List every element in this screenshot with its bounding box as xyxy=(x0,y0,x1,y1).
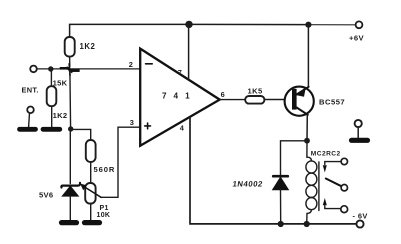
svg-text:741: 741 xyxy=(162,92,197,101)
wire pin 7 xyxy=(188,24,190,79)
wire pin 6 output xyxy=(220,99,246,101)
ground (under pot) xyxy=(85,220,100,225)
svg-text:2: 2 xyxy=(129,60,133,69)
wire 15K bottom to ground xyxy=(51,106,53,127)
wire top +6V rail xyxy=(70,24,309,37)
terminal ENT lower xyxy=(27,107,34,114)
svg-text:BC557: BC557 xyxy=(319,97,345,106)
ground (under ENT lower) xyxy=(20,127,36,132)
wire pin 4 xyxy=(190,117,356,224)
svg-text:5V6: 5V6 xyxy=(39,191,53,200)
terminal ENT upper xyxy=(30,66,37,73)
ground (under 15K) xyxy=(43,127,60,132)
diode D2 1N4002 xyxy=(273,175,288,178)
terminal +6V xyxy=(356,21,363,28)
relay armature arm xyxy=(326,179,342,187)
wire 560R to pot xyxy=(90,162,92,183)
resistor R1 1K2 (top-left) xyxy=(65,37,75,57)
transistor Q1 BC557 xyxy=(285,87,314,116)
wire lower terminal to ground xyxy=(28,113,31,127)
wire input to pin 2 xyxy=(37,68,140,70)
ground (right terminal) xyxy=(352,138,368,143)
resistor 560R xyxy=(86,140,96,162)
node junction pin7/top rail xyxy=(185,21,192,28)
relay core bar xyxy=(318,162,320,211)
svg-text:3: 3 xyxy=(130,118,134,127)
wire pot bottom to ground xyxy=(90,204,92,220)
crossover (no-connect hop) xyxy=(61,64,78,75)
wire branch to 560R xyxy=(71,129,91,140)
svg-text:1K2: 1K2 xyxy=(53,111,68,120)
relay contact bottom with up arrow xyxy=(325,206,341,209)
relay coil MC2RC2 xyxy=(306,141,308,157)
potentiometer P1 10K xyxy=(85,183,95,204)
svg-text:- 6V: - 6V xyxy=(353,212,368,221)
wire R1 bottom to crossover xyxy=(69,57,71,67)
terminal ground (right) xyxy=(355,120,362,127)
svg-text:7: 7 xyxy=(178,68,182,77)
svg-text:10K: 10K xyxy=(97,212,111,219)
resistor R2 15K / R3 1K2 (series chain) xyxy=(50,69,52,86)
svg-text:1K5: 1K5 xyxy=(248,87,264,96)
zener D1 5V6 xyxy=(69,129,71,184)
wire emitter to +6V rail xyxy=(307,25,309,87)
wire pot wiper to pin 3 xyxy=(101,127,141,197)
node junction reference/560R branch xyxy=(68,126,73,131)
node junction collector/diode/coil xyxy=(304,138,310,144)
wire to diode top xyxy=(281,141,308,175)
node junction coil/bottom rail xyxy=(304,221,310,227)
relay contact middle xyxy=(341,185,347,191)
wire rail to +6V terminal xyxy=(308,24,355,26)
op-amp U1 741 xyxy=(140,49,220,146)
resistor 1K5 xyxy=(245,96,264,104)
wire collector down xyxy=(306,115,308,141)
terminal -6V xyxy=(356,220,363,227)
svg-text:6: 6 xyxy=(221,90,225,99)
node junction emitter/top rail xyxy=(305,22,311,28)
relay contact top with down arrow xyxy=(325,162,341,165)
svg-text:1K2: 1K2 xyxy=(80,42,96,51)
svg-text:560R: 560R xyxy=(94,165,116,174)
svg-text:P1: P1 xyxy=(100,205,109,212)
svg-text:15K: 15K xyxy=(53,78,68,87)
op-amp inverting input minus sign xyxy=(146,63,153,65)
svg-text:1N4002: 1N4002 xyxy=(232,180,264,189)
ground (under zener) xyxy=(62,220,77,225)
wire 1K5 to base xyxy=(264,99,292,101)
node junction diode/bottom rail xyxy=(278,221,284,227)
op-amp non-inverting input plus sign xyxy=(145,123,151,129)
svg-text:4: 4 xyxy=(180,124,185,133)
svg-text:+6V: +6V xyxy=(349,34,364,43)
node junction input/15K xyxy=(48,66,53,71)
wire crossover down to reference node xyxy=(69,71,72,129)
svg-text:MC2RC2: MC2RC2 xyxy=(311,150,341,157)
svg-text:ENT.: ENT. xyxy=(22,86,39,95)
